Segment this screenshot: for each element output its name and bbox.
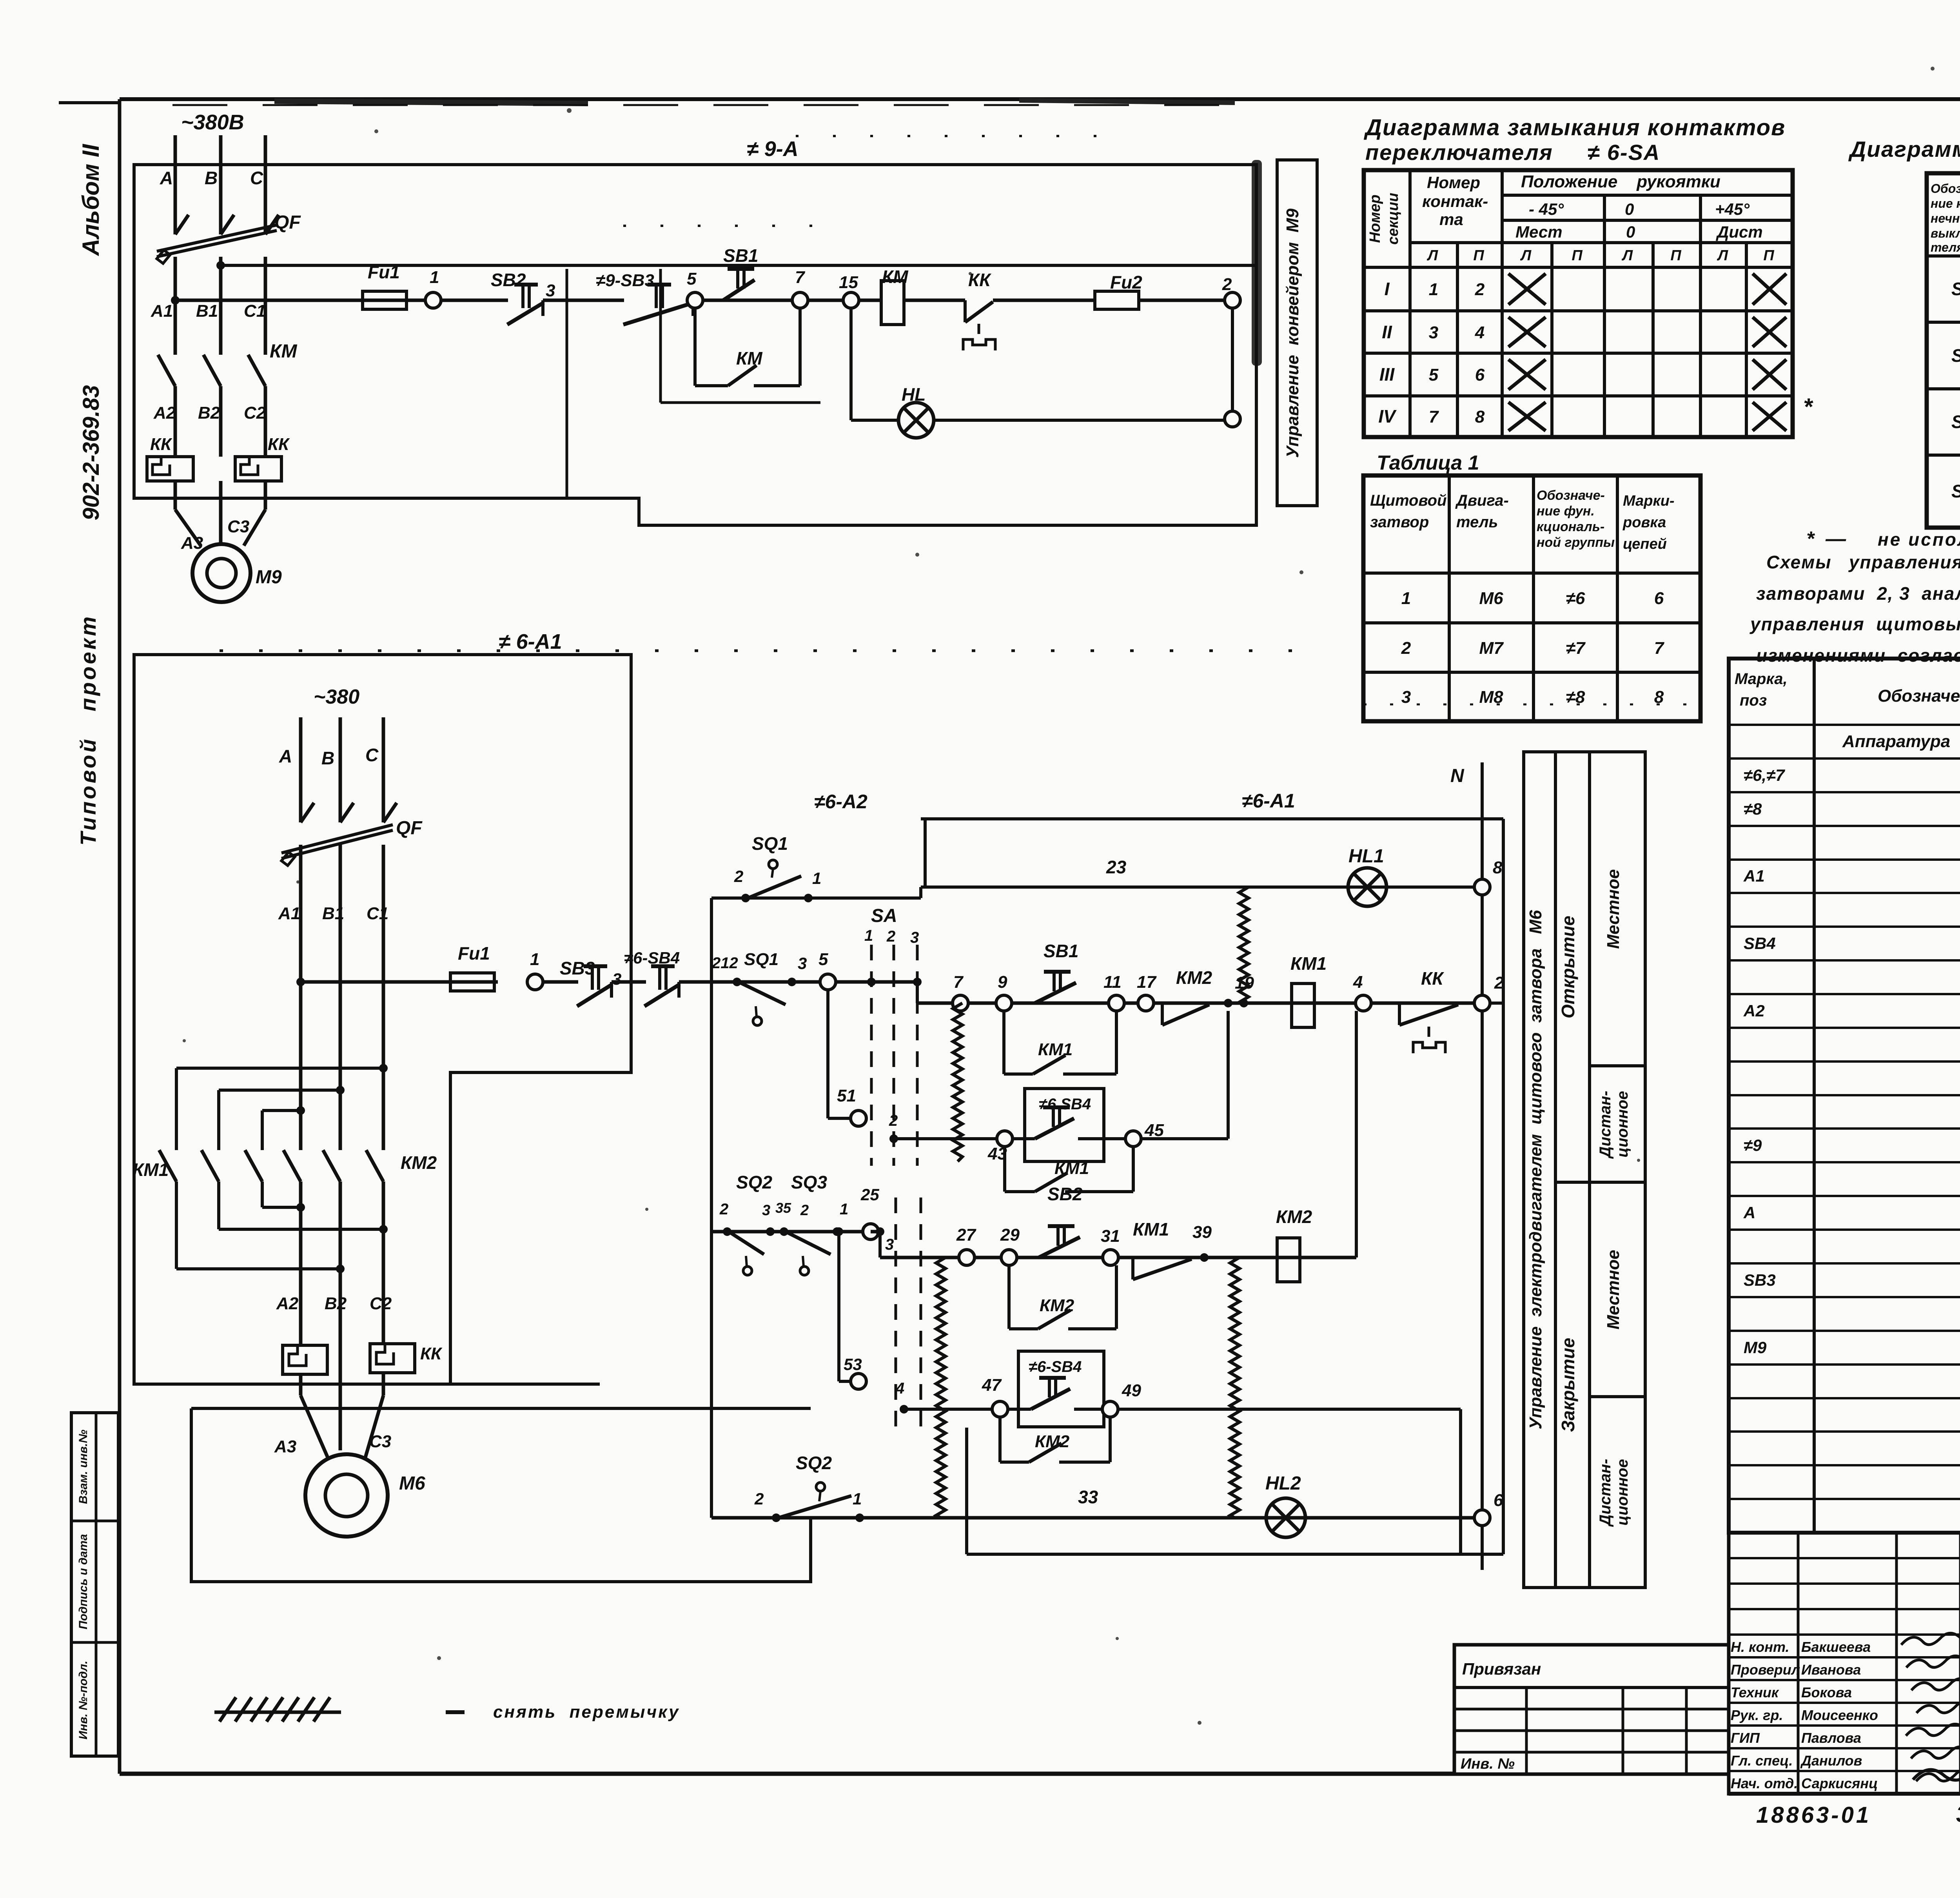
svg-text:~380В: ~380В [181, 111, 244, 134]
svg-text:П: П [1473, 247, 1484, 264]
svg-text:Типовой проект: Типовой проект [76, 614, 100, 846]
svg-text:Двига-: Двига- [1455, 492, 1509, 509]
svg-text:1: 1 [430, 268, 439, 287]
svg-text:КМ2: КМ2 [1035, 1432, 1070, 1451]
svg-text:2: 2 [1475, 280, 1485, 299]
svg-text:SВ3: SВ3 [1744, 1271, 1776, 1289]
svg-text:SB1: SB1 [1044, 941, 1078, 961]
svg-text:C: C [365, 745, 379, 765]
svg-text:HL2: HL2 [1265, 1473, 1301, 1494]
svg-text:Диаграмма замыкания контакто: Диаграмма замыкания контактов [1363, 115, 1786, 140]
svg-text:Положение рукоятки: Положение рукоятки [1521, 172, 1720, 191]
svg-text:Дистан-: Дистан- [1597, 1459, 1614, 1527]
svg-text:Л: Л [1426, 247, 1438, 264]
svg-text:ровка: ровка [1622, 514, 1666, 531]
svg-text:HL1: HL1 [1348, 846, 1384, 867]
svg-text:4: 4 [1475, 323, 1485, 342]
svg-text:теля: теля [1931, 240, 1960, 254]
svg-text:КМ2: КМ2 [401, 1152, 437, 1173]
svg-text:3: 3 [885, 1236, 894, 1253]
svg-text:поз: поз [1740, 692, 1767, 709]
svg-text:C1: C1 [367, 904, 388, 923]
svg-text:2: 2 [886, 928, 895, 945]
svg-text:18863-01: 18863-01 [1756, 1802, 1871, 1828]
svg-text:Обозначе-: Обозначе- [1537, 488, 1605, 503]
svg-text:не используется: не используется [1878, 529, 1960, 550]
svg-text:0: 0 [1626, 223, 1635, 241]
svg-text:Иванова: Иванова [1801, 1662, 1861, 1678]
svg-text:B2: B2 [198, 403, 220, 423]
svg-text:М6: М6 [1479, 589, 1503, 608]
svg-text:47: 47 [982, 1375, 1002, 1395]
svg-text:затворами 2, 3 аналогичны с: затворами 2, 3 аналогичны схеме [1756, 583, 1960, 604]
svg-text:КМ1: КМ1 [1290, 953, 1327, 974]
svg-text:≠8: ≠8 [1566, 688, 1585, 707]
svg-text:изменениями согласно таблиц: изменениями согласно таблице 1 [1756, 645, 1960, 666]
svg-text:ние ко-: ние ко- [1931, 196, 1960, 210]
svg-text:выключа-: выключа- [1931, 226, 1960, 240]
svg-text:≠6-А2: ≠6-А2 [814, 791, 867, 813]
svg-text:7: 7 [1429, 407, 1439, 426]
svg-text:3: 3 [762, 1202, 770, 1219]
svg-text:4: 4 [895, 1380, 904, 1397]
svg-text:КМ2: КМ2 [1040, 1296, 1074, 1315]
svg-text:17: 17 [1137, 973, 1157, 992]
svg-text:5: 5 [687, 269, 697, 289]
svg-text:29: 29 [1000, 1225, 1020, 1245]
svg-text:П: П [1670, 247, 1681, 264]
svg-text:КМ1: КМ1 [1038, 1040, 1073, 1059]
svg-text:SB3: SB3 [560, 958, 595, 978]
svg-text:3: 3 [612, 970, 621, 988]
svg-text:3: 3 [1401, 688, 1411, 707]
svg-text:53: 53 [844, 1355, 862, 1374]
svg-text:45: 45 [1144, 1121, 1164, 1140]
svg-text:Альбом II: Альбом II [78, 143, 104, 256]
svg-text:ГИП: ГИП [1731, 1730, 1760, 1746]
svg-text:Управление конвейером М9: Управление конвейером М9 [1283, 208, 1302, 458]
svg-text:39: 39 [1192, 1223, 1212, 1242]
svg-text:23: 23 [1106, 857, 1127, 877]
svg-text:контак-: контак- [1422, 192, 1488, 210]
svg-text:ние фун.: ние фун. [1537, 504, 1595, 519]
svg-text:≠9-SB3: ≠9-SB3 [596, 271, 654, 290]
svg-text:Н. конт.: Н. конт. [1731, 1639, 1789, 1655]
svg-text:III: III [1379, 364, 1395, 385]
svg-text:Таблица 1: Таблица 1 [1377, 452, 1479, 474]
svg-text:7: 7 [953, 973, 964, 992]
svg-text:Местное: Местное [1604, 1250, 1623, 1329]
svg-text:Павлова: Павлова [1801, 1730, 1861, 1746]
svg-text:5: 5 [818, 950, 828, 969]
svg-text:цепей: цепей [1623, 536, 1667, 552]
svg-text:С3: С3 [369, 1432, 391, 1451]
svg-text:SQ3: SQ3 [791, 1172, 827, 1192]
svg-text:QF: QF [396, 818, 423, 838]
svg-text:SQ2: SQ2 [796, 1453, 832, 1473]
svg-text:М9: М9 [256, 567, 282, 588]
svg-text:Аппаратура: Аппаратура [1842, 732, 1950, 751]
svg-text:Рук. гр.: Рук. гр. [1731, 1707, 1783, 1723]
svg-text:Обозначение: Обозначение [1878, 686, 1960, 706]
svg-text:КМ1: КМ1 [1133, 1219, 1169, 1239]
svg-text:27: 27 [956, 1225, 976, 1245]
svg-text:5: 5 [1429, 365, 1439, 385]
svg-text:C1: C1 [244, 301, 266, 321]
svg-text:Номер: Номер [1367, 194, 1383, 243]
svg-text:КМ1: КМ1 [132, 1159, 169, 1180]
svg-text:3: 3 [1429, 323, 1438, 342]
svg-text:≠ 6-А1: ≠ 6-А1 [499, 630, 562, 653]
svg-text:ционное: ционное [1614, 1459, 1631, 1526]
svg-text:КК: КК [150, 435, 172, 454]
svg-text:А: А [1743, 1203, 1755, 1222]
svg-text:6: 6 [1494, 1491, 1503, 1510]
svg-text:Диаграмма замыкания конечных: Диаграмма замыкания конечных выключателе… [1848, 137, 1960, 162]
svg-text:секции: секции [1385, 193, 1401, 245]
svg-text:затвор: затвор [1370, 514, 1429, 531]
svg-text:М9: М9 [1744, 1338, 1767, 1357]
svg-text:ной группы: ной группы [1537, 535, 1615, 550]
svg-text:B: B [321, 748, 334, 768]
svg-text:Л: Л [1621, 247, 1633, 264]
svg-text:1: 1 [1429, 280, 1438, 299]
svg-text:Привязан: Привязан [1462, 1660, 1541, 1678]
svg-text:B2: B2 [325, 1294, 347, 1313]
svg-text:Саркисянц: Саркисянц [1801, 1775, 1878, 1791]
svg-text:А3: А3 [274, 1437, 296, 1456]
svg-text:нечного: нечного [1931, 211, 1960, 225]
svg-text:КМ2: КМ2 [1176, 967, 1212, 988]
svg-text:1: 1 [530, 950, 539, 969]
svg-text:тель: тель [1456, 514, 1498, 531]
svg-text:3: 3 [546, 281, 555, 300]
svg-text:КМ: КМ [270, 341, 298, 362]
svg-text:QF: QF [274, 212, 301, 233]
svg-text:Моисеенко: Моисеенко [1801, 1707, 1878, 1723]
svg-text:3: 3 [910, 929, 919, 946]
svg-text:Номер: Номер [1427, 173, 1480, 192]
svg-text:15: 15 [839, 273, 858, 292]
svg-text:8: 8 [1493, 858, 1503, 877]
svg-text:Л: Л [1717, 247, 1728, 264]
svg-text:Марки-: Марки- [1623, 493, 1675, 509]
svg-text:Схемы управления щитовыми: Схемы управления щитовыми [1766, 552, 1960, 572]
svg-text:6: 6 [1654, 589, 1664, 608]
svg-text:КК: КК [968, 270, 991, 290]
svg-text:≠ 9-А: ≠ 9-А [747, 137, 799, 161]
svg-text:7: 7 [1654, 639, 1665, 658]
svg-text:8: 8 [1475, 407, 1485, 426]
svg-text:≠6,≠7: ≠6,≠7 [1744, 766, 1785, 784]
svg-text:2: 2 [800, 1202, 809, 1219]
svg-text:C: C [250, 168, 263, 188]
svg-text:Инв. №-подл.: Инв. №-подл. [77, 1660, 90, 1739]
svg-text:Л: Л [1520, 247, 1532, 264]
svg-text:9: 9 [998, 973, 1007, 992]
svg-text:А1: А1 [1743, 867, 1765, 885]
svg-text:2: 2 [1222, 275, 1232, 294]
svg-text:П: П [1763, 247, 1774, 264]
svg-text:С3: С3 [227, 517, 249, 536]
svg-text:≠6: ≠6 [1566, 589, 1585, 608]
svg-text:4: 4 [1353, 973, 1363, 992]
svg-text:31: 31 [1101, 1227, 1120, 1246]
svg-text:SQ1: SQ1 [1951, 279, 1960, 299]
svg-text:Щитовой: Щитовой [1370, 492, 1447, 509]
svg-text:Проверил: Проверил [1731, 1662, 1800, 1678]
svg-text:IV: IV [1378, 406, 1397, 426]
svg-text:6: 6 [1475, 365, 1485, 385]
svg-text:Взам. инв.№: Взам. инв.№ [77, 1430, 90, 1504]
svg-text:Открытие: Открытие [1558, 916, 1578, 1018]
svg-text:Гл. спец.: Гл. спец. [1731, 1753, 1793, 1769]
svg-text:A: A [160, 168, 173, 188]
svg-text:М6: М6 [399, 1473, 425, 1494]
svg-text:II: II [1382, 322, 1392, 342]
svg-text:КК: КК [1421, 968, 1444, 989]
svg-text:Данилов: Данилов [1800, 1753, 1862, 1769]
svg-text:SВ4: SВ4 [1744, 934, 1776, 953]
svg-text:управления щитовым затвором: управления щитовым затвором 1 с [1749, 614, 1960, 634]
svg-text:B1: B1 [322, 904, 344, 923]
svg-text:Fu1: Fu1 [458, 943, 490, 964]
svg-text:35: 35 [775, 1200, 791, 1216]
svg-text:Подпись и дата: Подпись и дата [77, 1534, 90, 1629]
svg-text:SQ3: SQ3 [1951, 412, 1960, 432]
svg-text:7: 7 [795, 268, 806, 287]
svg-text:A1: A1 [151, 301, 173, 321]
svg-text:Местное: Местное [1604, 869, 1623, 949]
svg-text:B1: B1 [196, 301, 218, 321]
svg-text:КК: КК [268, 435, 290, 454]
svg-text:SA: SA [871, 905, 897, 926]
svg-text:+45°: +45° [1715, 200, 1750, 218]
svg-text:SQ1: SQ1 [752, 833, 788, 854]
svg-text:КМ: КМ [882, 267, 909, 287]
svg-text:* —: * — [1806, 528, 1846, 550]
svg-text:11: 11 [1103, 973, 1122, 992]
svg-text:C2: C2 [244, 403, 266, 423]
svg-text:КМ2: КМ2 [1276, 1207, 1312, 1227]
svg-text:A2: A2 [276, 1294, 299, 1313]
svg-text:A1: A1 [278, 904, 300, 923]
svg-text:Дистан-: Дистан- [1597, 1091, 1614, 1159]
svg-text:212: 212 [711, 954, 738, 972]
svg-text:SQ2: SQ2 [736, 1172, 772, 1192]
svg-text:1: 1 [864, 927, 873, 944]
svg-text:1: 1 [1401, 589, 1411, 608]
svg-text:1: 1 [853, 1490, 862, 1508]
svg-text:≠8: ≠8 [1744, 800, 1762, 818]
svg-text:902-2-369.83: 902-2-369.83 [78, 385, 104, 520]
svg-text:≠7: ≠7 [1566, 639, 1586, 658]
svg-text:A2: A2 [153, 403, 176, 423]
svg-text:2: 2 [1401, 639, 1411, 658]
svg-text:SB2: SB2 [491, 270, 526, 290]
svg-text:кциональ-: кциональ- [1537, 519, 1604, 534]
svg-text:Техник: Техник [1731, 1684, 1779, 1700]
svg-text:B: B [205, 168, 218, 188]
svg-text:25: 25 [860, 1185, 879, 1204]
svg-text:19: 19 [1235, 973, 1254, 993]
svg-text:КМ1: КМ1 [1054, 1159, 1089, 1178]
svg-text:М7: М7 [1479, 639, 1504, 658]
svg-text:≠6 SB4: ≠6 SB4 [1039, 1096, 1091, 1113]
svg-text:А2: А2 [1743, 1002, 1765, 1020]
svg-text:КМ: КМ [736, 348, 763, 368]
svg-text:3: 3 [798, 954, 807, 973]
svg-text:Бокова: Бокова [1801, 1684, 1852, 1700]
svg-text:SQ1: SQ1 [744, 950, 779, 969]
svg-text:Управление электродвигателем: Управление электродвигателем щитового за… [1526, 910, 1545, 1429]
svg-text:≠6-А1: ≠6-А1 [1242, 790, 1295, 812]
svg-text:переключателя ≠ 6-SA: переключателя ≠ 6-SA [1365, 140, 1660, 165]
svg-text:HL: HL [902, 384, 926, 405]
svg-text:Fu2: Fu2 [1110, 272, 1142, 292]
svg-text:≠9: ≠9 [1744, 1136, 1762, 1154]
svg-text:Нач. отд.: Нач. отд. [1731, 1775, 1798, 1791]
svg-text:≠6-SB4: ≠6-SB4 [624, 949, 680, 967]
svg-text:2: 2 [889, 1112, 898, 1129]
svg-text:Мест: Мест [1515, 223, 1563, 241]
svg-text:Марка,: Марка, [1735, 670, 1788, 688]
svg-text:33: 33 [1078, 1487, 1098, 1507]
svg-text:51: 51 [837, 1086, 856, 1105]
svg-text:Бакшеева: Бакшеева [1801, 1639, 1871, 1655]
svg-text:A: A [279, 746, 292, 766]
svg-text:2: 2 [754, 1490, 764, 1508]
svg-text:C2: C2 [370, 1294, 392, 1313]
svg-text:Инв. №: Инв. № [1461, 1756, 1515, 1772]
svg-text:1: 1 [840, 1201, 848, 1218]
svg-text:~380: ~380 [314, 686, 359, 708]
svg-text:та: та [1439, 210, 1463, 229]
svg-text:П: П [1572, 247, 1583, 264]
svg-text:*: * [1803, 394, 1813, 420]
svg-text:2: 2 [734, 867, 743, 885]
svg-text:А3: А3 [181, 533, 203, 553]
svg-text:I: I [1385, 279, 1390, 299]
svg-text:Обозначе-: Обозначе- [1931, 181, 1960, 196]
svg-text:SQ2: SQ2 [1951, 345, 1960, 366]
svg-text:SB1: SB1 [723, 245, 758, 266]
svg-text:N: N [1450, 766, 1465, 786]
svg-text:2: 2 [719, 1201, 728, 1218]
svg-text:≠6-SB4: ≠6-SB4 [1029, 1358, 1082, 1375]
svg-text:49: 49 [1122, 1381, 1141, 1400]
svg-text:снять перемычку: снять перемычку [493, 1702, 680, 1722]
svg-text:Fu1: Fu1 [368, 262, 400, 282]
svg-text:Дист: Дист [1716, 223, 1763, 241]
svg-text:SB2: SB2 [1047, 1184, 1083, 1204]
svg-text:Закрытие: Закрытие [1558, 1338, 1578, 1432]
svg-text:SQ4: SQ4 [1951, 481, 1960, 501]
svg-text:0: 0 [1625, 200, 1634, 218]
svg-text:1: 1 [812, 869, 821, 887]
svg-text:ционное: ционное [1614, 1091, 1631, 1158]
svg-text:38: 38 [1956, 1802, 1960, 1827]
svg-text:КК: КК [420, 1344, 443, 1363]
svg-text:- 45°: - 45° [1529, 200, 1564, 218]
